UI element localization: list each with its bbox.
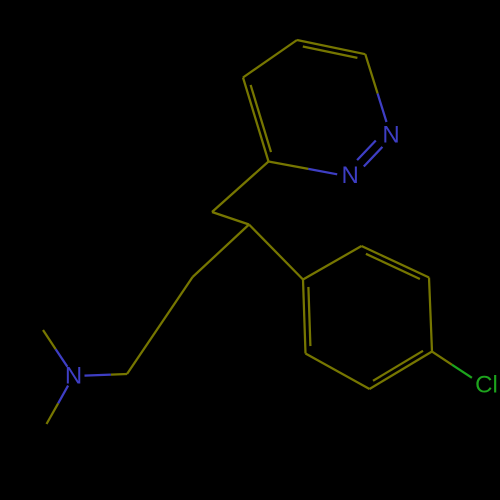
bond benzene edge <box>303 246 362 280</box>
svg-text:Cl: Cl <box>475 372 498 399</box>
bond chain-CH <box>193 225 249 278</box>
double bond benzene edge (left) <box>303 280 310 354</box>
bond CH2-N amine <box>85 374 128 376</box>
bond CH2-pyridazine <box>212 162 269 213</box>
bond pyridazine N-C <box>365 54 386 122</box>
svg-text:N: N <box>65 363 82 390</box>
bond pyridazine C-C <box>243 40 297 78</box>
double bond benzene edge (bottom right) <box>370 351 433 389</box>
bond benzene edge (right) <box>429 278 432 352</box>
double bond pyridazine C=C (left edge) <box>243 78 271 162</box>
svg-text:N: N <box>342 162 359 189</box>
bond pyridazine C-N <box>269 162 338 175</box>
double bond benzene edge (top right) <box>362 246 430 279</box>
bond CH2-CH2 chain <box>127 277 193 374</box>
bond methyl CH3-N (lower) <box>47 386 69 424</box>
double bond N=N (azo, pyridazine) <box>357 141 382 167</box>
bond C-Cl <box>432 352 472 378</box>
bond benzene edge (bottom) <box>306 354 370 390</box>
double bond pyridazine C=C (top edge) <box>297 40 365 58</box>
bond CH-phenyl <box>249 225 303 280</box>
svg-text:N: N <box>382 122 399 149</box>
bond CH-CH2 bridge <box>212 212 249 225</box>
bond methyl CH3-N (upper) <box>43 330 67 367</box>
